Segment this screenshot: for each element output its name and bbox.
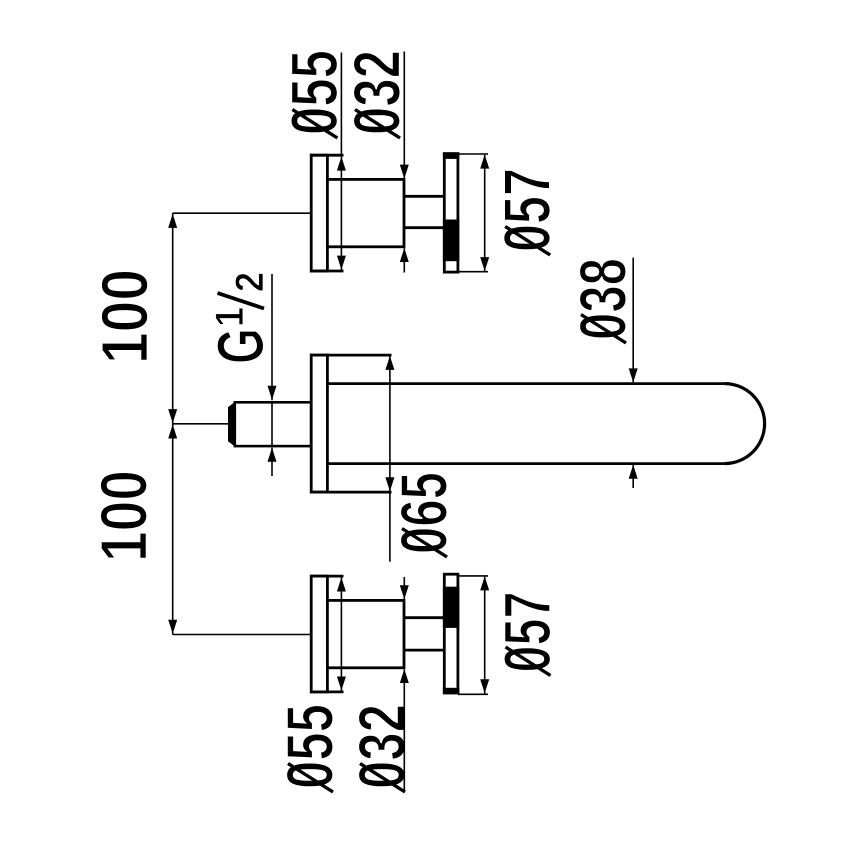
dimension Ø65: [385, 356, 394, 562]
dimension label Ø55 (top): [291, 51, 338, 138]
spout tube (Ø38): [327, 384, 764, 464]
dimension Ø57 (bottom): [458, 576, 489, 694]
dimension label Ø32 (bottom): [358, 706, 405, 792]
dimension G1/2 arrows: [268, 274, 277, 476]
dimension label Ø57 (bottom): [504, 594, 551, 676]
top valve stem: [404, 196, 444, 227]
top valve handle (Ø57): [443, 152, 459, 272]
bottom valve handle (Ø57): [443, 574, 459, 694]
dimension Ø38: [629, 258, 638, 488]
dimension label Ø38: [579, 260, 626, 344]
dimension 100 (upper): [168, 213, 311, 424]
dimension label G1/2: [216, 273, 265, 362]
dimension label Ø65: [400, 473, 447, 557]
dimension label 100 (upper): [101, 271, 148, 360]
dimension Ø55 (top): [337, 53, 346, 271]
dimension Ø55 (bottom): [337, 577, 346, 691]
top valve body (Ø32): [327, 179, 404, 246]
spout inlet stub (G1/2 thread): [228, 401, 311, 447]
dimension label Ø55 (bottom): [286, 705, 333, 792]
dimension label Ø32 (top): [353, 52, 400, 138]
dimension label Ø57 (top): [504, 170, 551, 255]
dimension 100 (lower): [168, 424, 311, 635]
dimension Ø57 (top): [458, 154, 489, 272]
top valve wall flange (Ø55): [310, 155, 344, 271]
dimension Ø32 (bottom): [400, 577, 409, 791]
bottom valve body (Ø32): [327, 600, 404, 667]
bottom valve wall flange (Ø55): [310, 576, 344, 692]
bottom valve stem: [404, 618, 444, 650]
dimension label 100 (lower): [100, 472, 147, 558]
dimension Ø32 (top): [400, 52, 409, 273]
spout wall flange (Ø65): [310, 355, 392, 492]
